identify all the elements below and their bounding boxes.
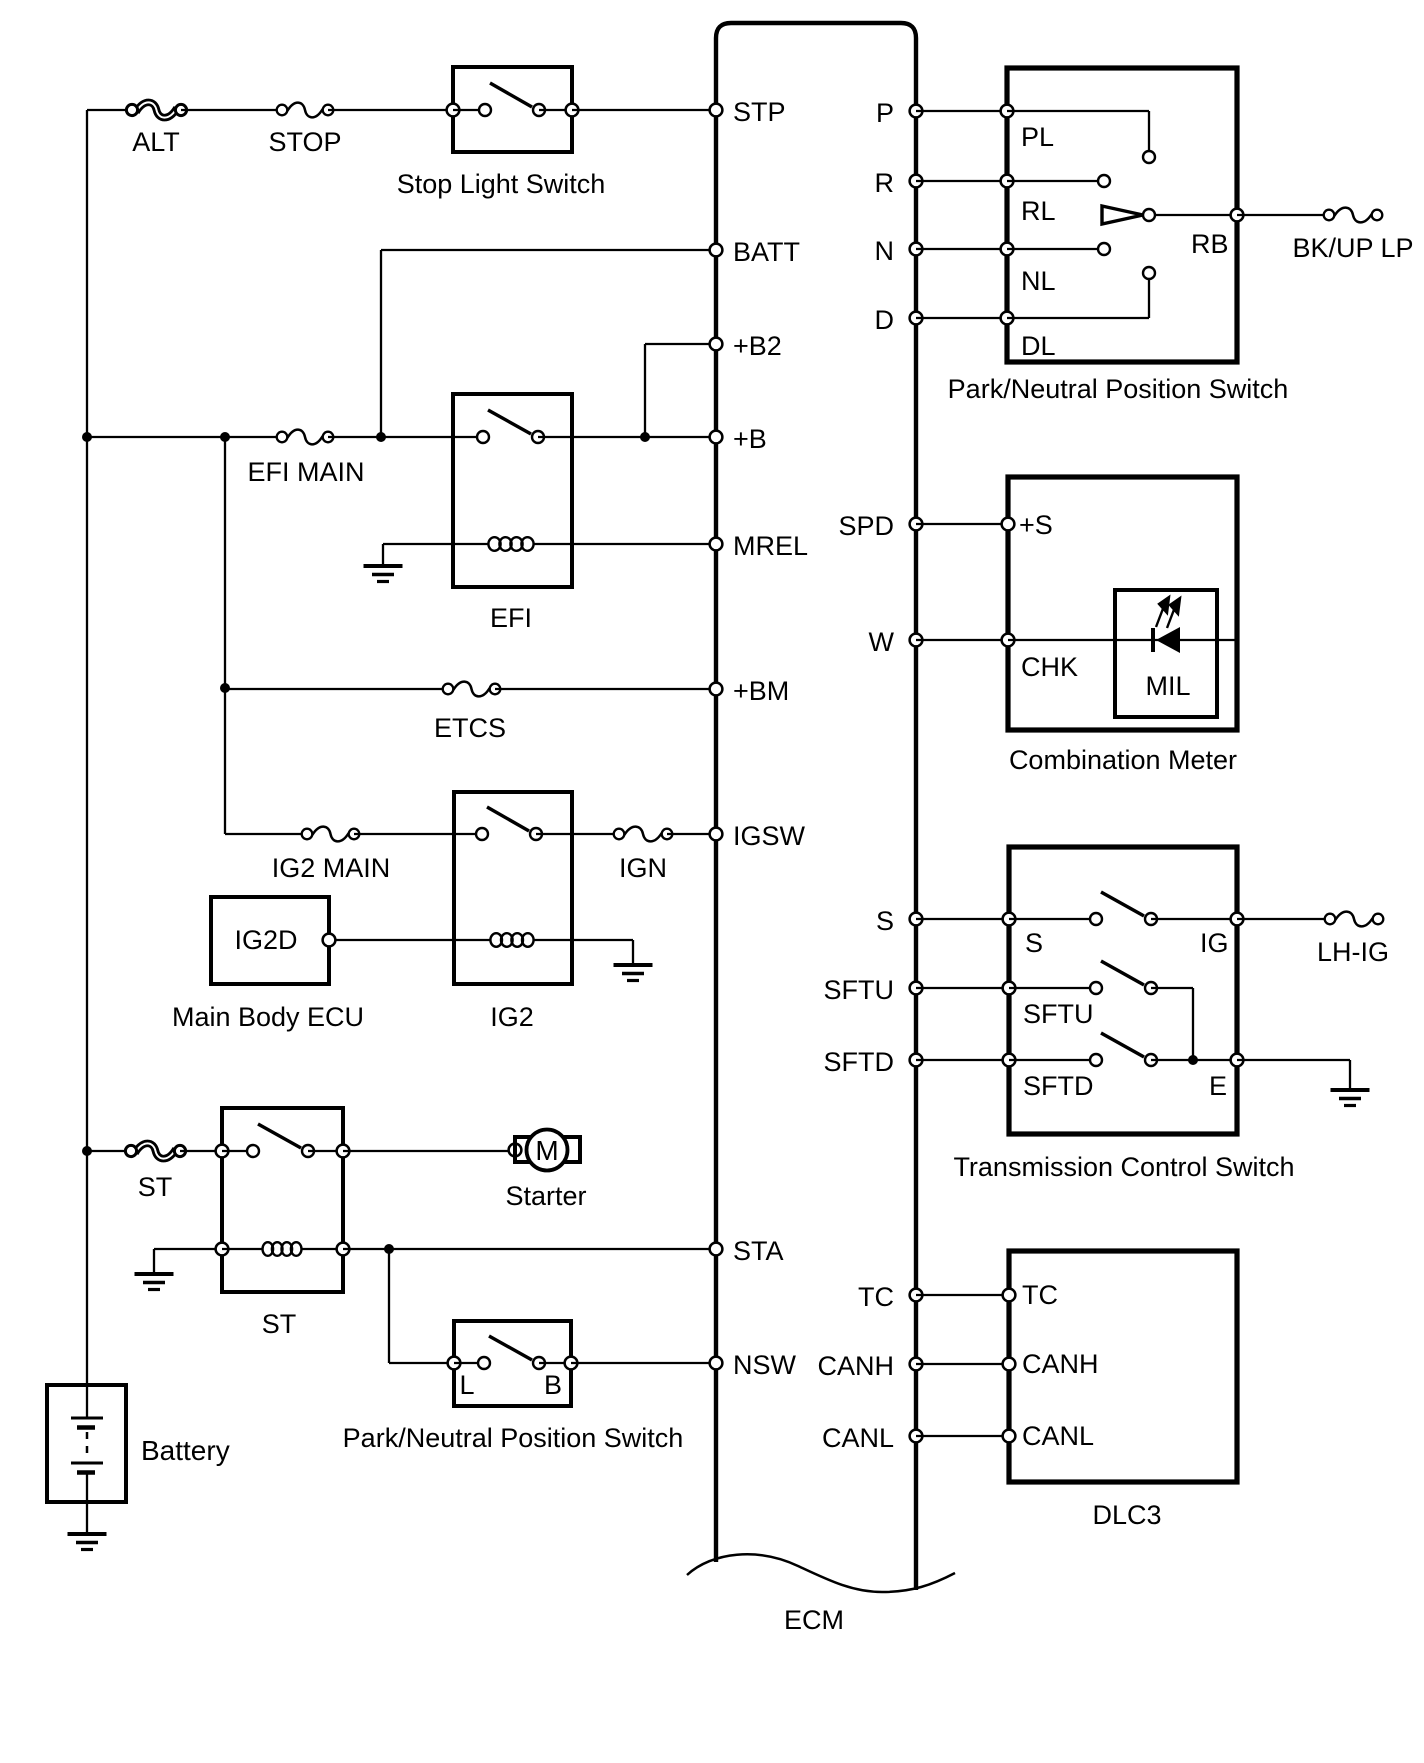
wire: S switch to IG pin <box>1151 918 1237 920</box>
contact P <box>1007 111 1155 163</box>
combination meter label <box>1009 745 1237 775</box>
EFI relay switch contacts and blade <box>477 410 544 443</box>
ECM pin STP <box>710 97 786 127</box>
svg-text:RB: RB <box>1191 229 1229 259</box>
wire: ECM SFTD to switch <box>916 1059 1009 1061</box>
park/neutral position switch box (starter circuit) <box>454 1321 571 1406</box>
svg-text:DLC3: DLC3 <box>1092 1500 1161 1530</box>
svg-text:RL: RL <box>1021 196 1056 226</box>
wire: STOP fuse to stop light switch <box>328 109 453 111</box>
wire: battery bus to ALT fusible link <box>87 109 132 111</box>
wire: ST relay to starter <box>343 1150 509 1152</box>
wire: IG to LH-IG fuse <box>1237 918 1330 920</box>
meter pin +S <box>1002 510 1053 540</box>
starter motor M <box>509 1130 580 1171</box>
stop light switch contacts and blade <box>447 83 579 116</box>
ECM pin CANH <box>817 1351 922 1381</box>
position switch pin RL <box>1001 175 1056 226</box>
wire: ECM N to position switch <box>916 248 1007 250</box>
meter pin CHK <box>1002 634 1078 682</box>
wire: ECM TC to DLC3 <box>916 1294 1009 1296</box>
svg-text:IG2: IG2 <box>490 1002 534 1032</box>
svg-text:STP: STP <box>733 97 786 127</box>
ECM pin W <box>869 627 923 657</box>
wire: E pin to ground <box>1237 1059 1350 1061</box>
ground (ST relay coil) <box>135 1249 174 1290</box>
ground (battery) <box>68 1534 107 1550</box>
svg-text:Combination Meter: Combination Meter <box>1009 745 1237 775</box>
wire: IGSW branch to ETCS fuse <box>225 688 448 690</box>
IG2 relay box <box>454 792 572 984</box>
junction: +B / BATT riser <box>376 432 386 442</box>
svg-text:IGSW: IGSW <box>733 821 806 851</box>
svg-text:+S: +S <box>1019 510 1053 540</box>
starter label <box>505 1181 586 1211</box>
IG2 relay switch contacts and blade <box>476 807 542 840</box>
park/neutral position switch box (shift indicator) <box>1007 68 1237 362</box>
wire: battery bus to EFI MAIN fuse <box>87 436 282 438</box>
fuse LH-IG <box>1317 912 1389 967</box>
combination meter box <box>1008 477 1237 730</box>
wire: EFI relay coil to MREL pin <box>533 543 716 545</box>
contact R <box>1007 175 1110 187</box>
svg-text:LH-IG: LH-IG <box>1317 937 1389 967</box>
ECM torn-bottom wavy break line <box>687 1554 955 1592</box>
EFI relay label <box>490 603 532 633</box>
svg-text:STA: STA <box>733 1236 784 1266</box>
S switch contacts and blade <box>1009 892 1157 925</box>
junction: bus / +B wire <box>82 432 92 442</box>
pin label L <box>459 1370 474 1400</box>
svg-text:TC: TC <box>858 1282 894 1312</box>
ECM pin CANL <box>822 1423 922 1453</box>
pin RB <box>1191 209 1243 259</box>
ECM pin SPD <box>838 511 922 541</box>
SFTU switch contacts and blade <box>1009 961 1157 994</box>
svg-text:IG2 MAIN: IG2 MAIN <box>272 853 391 883</box>
ECM pin IGSW <box>710 821 806 851</box>
fuse STOP <box>268 103 341 157</box>
svg-text:CANL: CANL <box>822 1423 894 1453</box>
fusible link ST <box>125 1143 185 1202</box>
ECM pin R <box>875 168 923 198</box>
svg-text:SFTU: SFTU <box>824 975 895 1005</box>
position switch pin PL <box>1001 105 1054 152</box>
svg-text:Starter: Starter <box>505 1181 586 1211</box>
DLC3 label <box>1092 1500 1161 1530</box>
svg-text:S: S <box>876 906 894 936</box>
wire: SPD to +S <box>916 523 1008 525</box>
ST relay coil contacts <box>216 1243 263 1256</box>
svg-text:Park/Neutral Position Switch: Park/Neutral Position Switch <box>948 374 1289 404</box>
ECM pin D <box>875 305 923 335</box>
svg-text:SFTD: SFTD <box>1023 1071 1094 1101</box>
transmission control switch box <box>1009 847 1237 1134</box>
wire: ETCS fuse to +BM pin <box>495 688 716 690</box>
MIL label <box>1145 671 1190 701</box>
svg-text:N: N <box>875 236 895 266</box>
wire: RB to back-up lamp fuse <box>1237 214 1329 216</box>
svg-text:Main Body ECU: Main Body ECU <box>172 1002 364 1032</box>
svg-text:CANH: CANH <box>1022 1349 1099 1379</box>
ST relay coil <box>263 1242 302 1256</box>
svg-text:ST: ST <box>262 1309 297 1339</box>
ECM pin TC <box>858 1282 922 1312</box>
EFI relay box <box>453 394 572 587</box>
battery cell plates <box>71 1385 103 1533</box>
IG2 relay label <box>490 1002 534 1032</box>
wire: EFI MAIN fuse to EFI relay contact <box>328 436 483 438</box>
transmission control switch label <box>953 1152 1294 1182</box>
wire: left vertical bus from STP line down to battery <box>86 110 88 1385</box>
park/neutral position switch label (bottom) <box>343 1423 684 1453</box>
svg-text:ECM: ECM <box>784 1605 844 1635</box>
wire: ALT to STOP fuse <box>181 109 282 111</box>
svg-text:Transmission Control Switch: Transmission Control Switch <box>953 1152 1294 1182</box>
wire: ECM CANH to DLC3 <box>916 1363 1009 1365</box>
IG2D pin circle <box>323 934 336 947</box>
svg-text:SPD: SPD <box>838 511 894 541</box>
ground (EFI relay coil) <box>364 544 403 582</box>
stop light switch box <box>453 67 572 152</box>
svg-text:IGN: IGN <box>619 853 667 883</box>
ground (IG2 relay coil) <box>614 940 653 981</box>
DLC3 pin CANL <box>1003 1421 1094 1451</box>
svg-text:L: L <box>459 1370 474 1400</box>
svg-text:IG2D: IG2D <box>234 925 297 955</box>
ECM module outline (rounded, torn bottom edge) <box>716 23 916 1590</box>
ECM pin +BM <box>710 676 790 706</box>
svg-text:Park/Neutral Position Switch: Park/Neutral Position Switch <box>343 1423 684 1453</box>
wire: ECM SFTU to switch <box>916 987 1009 989</box>
svg-text:S: S <box>1025 928 1043 958</box>
svg-text:Stop Light Switch: Stop Light Switch <box>397 169 606 199</box>
wire: IG2 relay to IGN fuse <box>536 833 619 835</box>
svg-text:STOP: STOP <box>268 127 341 157</box>
wire: wiper to RB pin <box>1155 214 1237 216</box>
junction: IGSW branch / +BM wire <box>220 683 230 693</box>
TCS pin IG <box>1200 913 1243 958</box>
fusible link ALT <box>126 102 186 157</box>
wire: IGSW branch vertical <box>224 437 226 834</box>
TCS pin S <box>1003 913 1043 958</box>
Main Body ECU label <box>172 1002 364 1032</box>
contact N <box>1007 243 1110 255</box>
Main Body ECU box (IG2D) <box>211 897 329 984</box>
wire: +B junction riser to +B2 pin <box>645 344 716 437</box>
svg-text:+BM: +BM <box>733 676 789 706</box>
svg-text:EFI MAIN: EFI MAIN <box>247 457 364 487</box>
fuse EFI MAIN <box>247 430 364 487</box>
pin label B <box>544 1370 562 1400</box>
svg-text:MIL: MIL <box>1145 671 1190 701</box>
fuse BK/UP LP <box>1292 208 1413 263</box>
wire: ECM R to position switch <box>916 180 1007 182</box>
wire: SFTD switch to E pin <box>1151 1059 1237 1061</box>
ECM pin BATT <box>710 237 800 267</box>
junction: SFTU / SFTD common <box>1188 1055 1198 1065</box>
svg-text:W: W <box>869 627 895 657</box>
svg-text:Battery: Battery <box>141 1435 230 1466</box>
wire: ST relay coil to STA pin <box>301 1243 716 1256</box>
junction: bus / ST wire <box>82 1146 92 1156</box>
svg-text:B: B <box>544 1370 562 1400</box>
wire: battery bus to ST fusible link <box>87 1150 131 1152</box>
wire: IGN fuse to IGSW pin <box>667 833 716 835</box>
wire: STA junction down to park/neutral switch <box>389 1249 454 1363</box>
wire: W to CHK <box>916 639 1008 641</box>
junction: +B / +B2 riser <box>640 432 650 442</box>
ECM pin +B2 <box>710 331 782 361</box>
wire: IG2 relay coil to ground <box>533 939 633 941</box>
wire: +B junction riser to BATT pin <box>381 250 716 437</box>
stop light switch label <box>397 169 606 199</box>
wire: ST fusible link to ST relay <box>180 1150 222 1152</box>
svg-text:NSW: NSW <box>733 1350 797 1380</box>
svg-text:BATT: BATT <box>733 237 800 267</box>
svg-text:R: R <box>875 168 895 198</box>
svg-text:PL: PL <box>1021 122 1054 152</box>
svg-text:TC: TC <box>1022 1280 1058 1310</box>
ECM pin SFTD <box>824 1047 923 1077</box>
wire: ECM D to position switch <box>916 317 1007 319</box>
EFI relay coil <box>488 537 533 551</box>
ECM pin MREL <box>710 531 808 561</box>
contact D <box>1007 267 1155 318</box>
park/neutral position switch label (top) <box>948 374 1289 404</box>
ECM pin P <box>876 98 922 128</box>
ECM pin SFTU <box>824 975 923 1005</box>
position switch pin DL <box>1001 312 1056 361</box>
ECM pin NSW <box>710 1350 797 1380</box>
wire: ECM CANL to DLC3 <box>916 1435 1009 1437</box>
junction: STA / NSW branch <box>384 1244 394 1254</box>
svg-text:SFTD: SFTD <box>824 1047 895 1077</box>
svg-text:IG: IG <box>1200 928 1229 958</box>
svg-text:CANH: CANH <box>817 1351 894 1381</box>
wire: ground to ST relay coil <box>154 1248 222 1250</box>
svg-text:DL: DL <box>1021 331 1056 361</box>
TCS pin SFTU <box>1003 982 1094 1029</box>
ST relay switch contacts and blade <box>216 1124 350 1157</box>
SFTD switch contacts and blade <box>1009 1033 1157 1066</box>
fuse IG2 MAIN <box>272 827 391 883</box>
svg-text:M: M <box>535 1135 558 1166</box>
svg-text:EFI: EFI <box>490 603 532 633</box>
svg-text:D: D <box>875 305 895 335</box>
selector wiper arm <box>1102 206 1155 224</box>
wire: EFI relay to +B pin <box>538 436 716 438</box>
battery label <box>141 1435 230 1466</box>
svg-text:CANL: CANL <box>1022 1421 1094 1451</box>
wire: IGSW branch to IG2 MAIN fuse <box>225 833 307 835</box>
ECM pin +B <box>710 424 767 454</box>
svg-text:NL: NL <box>1021 266 1056 296</box>
svg-text:+B2: +B2 <box>733 331 782 361</box>
battery box <box>47 1385 126 1502</box>
DLC3 pin CANH <box>1003 1349 1099 1379</box>
ECM pin N <box>875 236 923 266</box>
svg-text:E: E <box>1209 1071 1227 1101</box>
MIL box <box>1115 590 1217 717</box>
DLC3 box <box>1009 1251 1237 1482</box>
position switch pin NL <box>1001 243 1056 296</box>
svg-text:SFTU: SFTU <box>1023 999 1094 1029</box>
ST relay box <box>222 1108 343 1292</box>
wire: stop light switch to STP pin <box>572 109 716 111</box>
wire: ECM S to switch S <box>916 918 1009 920</box>
DLC3 pin TC <box>1003 1280 1058 1310</box>
IG2D pin label <box>234 925 297 955</box>
svg-text:+B: +B <box>733 424 767 454</box>
svg-text:ALT: ALT <box>132 127 180 157</box>
svg-text:P: P <box>876 98 894 128</box>
TCS pin E <box>1209 1054 1243 1101</box>
ST relay label <box>262 1309 297 1339</box>
park/neutral switch contacts and blade <box>448 1336 578 1369</box>
fuse ETCS <box>434 682 506 743</box>
wire: ECM P to position switch <box>916 110 1007 112</box>
wire: CHK lamp feed through meter <box>1008 639 1237 641</box>
MIL indicator LED <box>1153 627 1180 653</box>
wire: IG2D pin to IG2 relay coil <box>335 939 491 941</box>
svg-text:BK/UP LP: BK/UP LP <box>1292 233 1413 263</box>
svg-text:CHK: CHK <box>1021 652 1078 682</box>
junction: +B / IGSW branch <box>220 432 230 442</box>
wire: IG2 MAIN fuse to IG2 relay contact <box>354 833 482 835</box>
fuse IGN <box>614 827 673 883</box>
wire: park/neutral switch to NSW pin <box>571 1362 716 1364</box>
LED arrows <box>1156 597 1180 628</box>
ECM label <box>784 1605 844 1635</box>
ECM pin S <box>876 906 922 936</box>
ground (transmission control switch) <box>1331 1060 1370 1106</box>
wire: ground riser to EFI relay coil <box>383 543 489 545</box>
wire: SFTU switch to E bus <box>1151 988 1193 1060</box>
svg-text:ETCS: ETCS <box>434 713 506 743</box>
svg-text:MREL: MREL <box>733 531 808 561</box>
svg-text:ST: ST <box>138 1172 173 1202</box>
IG2 relay coil <box>490 933 533 947</box>
TCS pin SFTD <box>1003 1054 1094 1101</box>
ECM pin STA <box>710 1236 784 1266</box>
